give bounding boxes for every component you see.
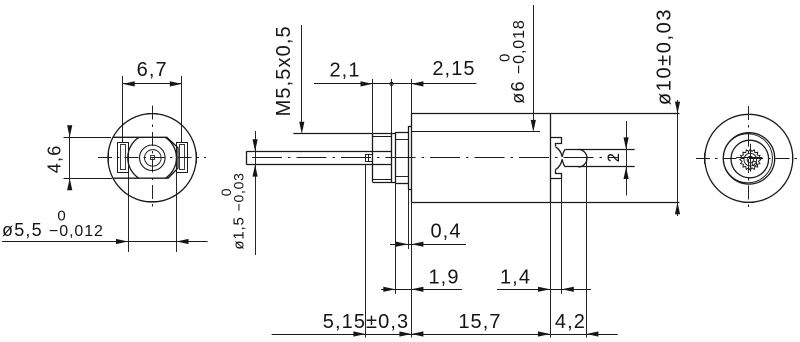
motor body rear face bbox=[550, 114, 552, 203]
svg-text:1,4: 1,4 bbox=[500, 266, 531, 288]
dim 4,2 extension at shaft tip bbox=[586, 159, 588, 338]
svg-text:ø1,5 −0,03: ø1,5 −0,03 bbox=[231, 172, 248, 249]
thread tube front face bbox=[372, 134, 374, 182]
rear bearing boss circle bbox=[731, 140, 769, 178]
shaft center square bbox=[151, 156, 155, 160]
thread M5.5 top crest line with reference extension bbox=[293, 133, 395, 135]
dim 2,1 extension at thread front bbox=[372, 79, 374, 134]
rear view horizontal centerline bbox=[696, 158, 800, 160]
right brush tab inner bbox=[180, 145, 185, 170]
motor body D10 bottom edge + D10 extension bbox=[411, 202, 679, 204]
rear shaft spherical end bbox=[578, 149, 587, 167]
rear shaft D2 top line + dim 2 extension bbox=[565, 149, 634, 151]
collar circle D5.5 right arc bbox=[165, 137, 176, 178]
svg-text:4,2: 4,2 bbox=[555, 311, 586, 333]
rear shaft D2 bottom line + dim 2 extension bbox=[565, 166, 634, 168]
side view axis centerline bbox=[252, 157, 619, 159]
rear center cross vertical bbox=[750, 144, 752, 172]
rear shaft inner circle bbox=[747, 156, 753, 162]
rear tick left bbox=[704, 153, 706, 164]
motor body D10 top edge + D10 extension bbox=[411, 113, 679, 115]
front view vertical centerline bbox=[152, 106, 154, 211]
shaft end face bbox=[246, 151, 248, 164]
shaft circle front bbox=[145, 150, 162, 167]
dim 4,6 line bbox=[69, 129, 71, 188]
rear view vertical centerline bbox=[748, 106, 750, 211]
rear tick bottom bbox=[743, 202, 754, 204]
rear step top bbox=[551, 138, 562, 147]
dim 2,1 2,15 line bbox=[314, 83, 476, 85]
dim 0,4 extension left bbox=[408, 190, 410, 249]
centerline tick top bbox=[147, 113, 158, 115]
motor front view: flange circle D10 bbox=[108, 114, 196, 202]
centerline tick right bbox=[196, 152, 198, 163]
rear shaft circle bbox=[744, 153, 757, 166]
dim 1,4 extension at step bbox=[561, 179, 563, 294]
dim 4,6 extension bottom bbox=[64, 178, 113, 180]
svg-text:ø5,5 −0,012: ø5,5 −0,012 bbox=[2, 220, 104, 240]
shaft D1.5 top line bbox=[247, 151, 392, 153]
centerline tick left bbox=[108, 152, 110, 163]
left brush tab outer bbox=[118, 143, 129, 173]
extension body front face down bbox=[411, 202, 413, 337]
bearing circle D3 bbox=[140, 145, 166, 171]
rear end cap inner outline bbox=[723, 134, 772, 183]
svg-text:0: 0 bbox=[218, 188, 234, 197]
label M5,5x0,5 leader bbox=[301, 25, 303, 124]
right brush tab outer bbox=[177, 143, 188, 173]
dim 2,1/2,15 extension at thread end bbox=[391, 79, 393, 134]
rear view flange circle D10 bbox=[705, 114, 793, 202]
svg-text:1,9: 1,9 bbox=[428, 266, 459, 288]
end cap plate outline (chamfered) bbox=[113, 137, 179, 178]
svg-text:2,1: 2,1 bbox=[329, 59, 360, 81]
svg-text:4,6: 4,6 bbox=[45, 145, 65, 174]
bottom dimension line bbox=[272, 334, 618, 336]
collar inner step top bbox=[395, 139, 408, 141]
dim D5.5 line bbox=[2, 241, 208, 243]
dim 6,7 extension right bbox=[181, 76, 183, 143]
dim D6 leader bbox=[533, 5, 535, 121]
centerline tick bottom bbox=[147, 201, 158, 203]
thread M5.5 bottom crest line bbox=[373, 182, 396, 184]
shaft D1.5 bottom line bbox=[247, 164, 392, 166]
rear tick right bbox=[792, 153, 794, 164]
washer 0.4 bottom bbox=[408, 189, 411, 191]
dim D5.5 extension left bbox=[128, 162, 130, 252]
dim 4,6 extension top bbox=[64, 137, 112, 139]
svg-text:0: 0 bbox=[497, 53, 514, 62]
svg-text:15,7: 15,7 bbox=[458, 311, 501, 333]
rear shaft mark dot bbox=[752, 161, 756, 165]
rear pivot cone bottom bbox=[556, 159, 563, 169]
dim 2 line bbox=[626, 121, 628, 196]
washer 0.4 top bbox=[408, 126, 411, 128]
rear pivot cone top bbox=[556, 147, 563, 157]
svg-text:2: 2 bbox=[604, 152, 623, 162]
collar D6 front face bbox=[395, 132, 397, 183]
dim D5.5 extension right bbox=[176, 162, 178, 252]
collar circle D5.5 left arc bbox=[128, 137, 139, 178]
collar D6 top bbox=[395, 132, 408, 134]
rear tick top bbox=[743, 114, 754, 116]
thread root line bottom bbox=[373, 179, 392, 181]
dim 6,7 line bbox=[123, 83, 182, 85]
svg-text:M5,5x0,5: M5,5x0,5 bbox=[273, 25, 295, 116]
svg-text:0: 0 bbox=[57, 208, 66, 225]
rear step bottom bbox=[551, 170, 562, 179]
dim D1.5 line bbox=[255, 131, 257, 255]
svg-text:0,4: 0,4 bbox=[430, 220, 461, 242]
thread end line bbox=[391, 134, 393, 182]
dim 5,15 extension at shaft groove bbox=[365, 165, 367, 338]
svg-text:5,15±0,3: 5,15±0,3 bbox=[323, 311, 410, 333]
collar inner step bottom bbox=[395, 176, 408, 178]
dim 0,4 line bbox=[390, 244, 466, 246]
rear end cap outer outline bbox=[723, 133, 774, 184]
dim 1,4 line bbox=[497, 289, 591, 291]
svg-text:6,7: 6,7 bbox=[137, 59, 168, 81]
dim chain dot bbox=[390, 82, 393, 85]
dim 1,9 line bbox=[381, 289, 462, 291]
rear shaft knurl bbox=[740, 149, 761, 170]
collar D6 bottom bbox=[395, 183, 408, 185]
dim D10 line bbox=[677, 100, 679, 216]
rear shaft flare bottom bbox=[562, 159, 565, 167]
thread root line top bbox=[373, 136, 392, 138]
svg-text:ø10±0,03: ø10±0,03 bbox=[654, 8, 676, 105]
rear center cross horizontal bbox=[736, 157, 762, 159]
dim 1,9 extension at collar front bbox=[395, 184, 397, 294]
dim 6,7 extension left bbox=[122, 76, 124, 143]
motor body D10 front face bbox=[411, 114, 413, 203]
front view horizontal centerline bbox=[98, 157, 206, 159]
svg-text:2,15: 2,15 bbox=[432, 58, 475, 80]
dim 2,15 extension at body face bbox=[411, 79, 413, 114]
dim D6 extension line bbox=[411, 131, 540, 133]
extension body rear face down bbox=[550, 202, 552, 337]
shaft ring groove bbox=[366, 155, 373, 162]
washer 0.4 front face bbox=[408, 126, 410, 189]
left brush tab inner bbox=[121, 145, 126, 170]
rear shaft flare top bbox=[562, 149, 565, 157]
